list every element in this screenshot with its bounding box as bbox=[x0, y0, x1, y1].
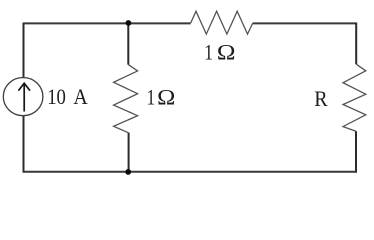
wire middle vertical lower bbox=[128, 133, 130, 173]
wire left vertical upper bbox=[23, 23, 25, 79]
resistor R vertical right bbox=[343, 64, 366, 131]
svg-text:R: R bbox=[314, 86, 328, 111]
value label 1 Ohm (top resistor) bbox=[204, 39, 235, 64]
svg-text:1: 1 bbox=[147, 84, 156, 109]
svg-text:Ω: Ω bbox=[157, 84, 175, 109]
wire middle vertical upper bbox=[127, 23, 129, 65]
wire top-left segment bbox=[24, 22, 191, 24]
wire left vertical lower bbox=[23, 115, 25, 173]
wire right vertical upper bbox=[355, 23, 357, 65]
wire top-right segment bbox=[253, 22, 356, 24]
value label 1 Ohm (middle resistor) bbox=[147, 84, 176, 109]
wire right vertical lower bbox=[355, 131, 357, 173]
resistor R2 1 Ohm vertical middle bbox=[114, 65, 138, 133]
svg-text:A: A bbox=[73, 84, 88, 109]
junction node dot top bbox=[125, 20, 131, 26]
svg-text:Ω: Ω bbox=[217, 39, 236, 64]
current source I1 circle bbox=[3, 78, 43, 116]
svg-text:10: 10 bbox=[47, 84, 66, 109]
current source I1 arrow bbox=[18, 83, 30, 111]
resistor R1 1 Ohm horizontal top bbox=[191, 11, 253, 34]
value label 10 A (current source) bbox=[47, 84, 88, 109]
svg-text:1: 1 bbox=[204, 39, 213, 64]
wire bottom segment bbox=[24, 171, 357, 173]
junction node dot bottom bbox=[125, 169, 131, 175]
